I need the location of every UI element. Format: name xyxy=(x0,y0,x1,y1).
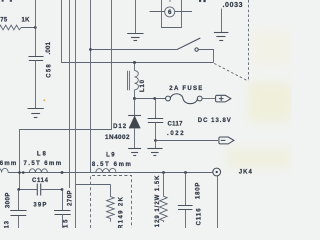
connector plus terminal xyxy=(216,95,231,102)
wire bus C x=75.5 xyxy=(75,0,77,228)
svg-text:L9: L9 xyxy=(106,153,115,159)
resistor R149 2K xyxy=(107,185,125,230)
transformer/pin box with circled 6 xyxy=(150,0,193,28)
node C114 right xyxy=(61,188,64,191)
switch S (arm and contact) xyxy=(177,38,214,63)
wire R149 feed from bus C xyxy=(76,184,111,186)
svg-text:8.5T 6mm: 8.5T 6mm xyxy=(92,162,131,168)
ground (top right, x=221.5) xyxy=(214,9,229,41)
node C116 tap xyxy=(184,171,187,174)
wire bus E x=111 corner to x=19.5 down to L8 wire xyxy=(20,0,112,173)
svg-text:R129 1/2W 1.5K: R129 1/2W 1.5K xyxy=(155,175,161,228)
wire stub marks top-left edge xyxy=(2,0,4,2)
node switch feed on bus D xyxy=(89,48,92,51)
wire bus D x=90.5 xyxy=(90,0,92,173)
svg-text:.022: .022 xyxy=(167,131,184,137)
svg-text:1K: 1K xyxy=(22,17,31,23)
svg-text:13: 13 xyxy=(4,220,10,228)
inductor L8 xyxy=(24,152,62,173)
node second dot xyxy=(22,171,25,174)
node minus-wire tap xyxy=(154,139,157,142)
resistor R129 1/2W 1.5K xyxy=(155,173,167,233)
wire x=19.5 down to C114 xyxy=(19,173,21,190)
inductor L10 xyxy=(128,63,146,99)
fuse F 2A xyxy=(166,86,216,104)
capacitor C115 270P xyxy=(54,190,73,229)
ground (C58) xyxy=(28,109,44,118)
mechanical linkage dashed vertical xyxy=(248,0,250,81)
inductor (far left, cut) xyxy=(0,168,8,172)
svg-text:15: 15 xyxy=(64,219,70,228)
svg-text:L8: L8 xyxy=(37,152,47,158)
svg-text:180P: 180P xyxy=(196,183,202,200)
capacitor C117 xyxy=(148,99,185,141)
svg-text:C117: C117 xyxy=(168,121,184,127)
capacitor C114 xyxy=(20,178,63,208)
wire switch top y=49.5 xyxy=(91,49,177,51)
svg-text:39P: 39P xyxy=(33,202,46,208)
node junction resistor/vertical xyxy=(34,26,37,29)
svg-text:C114: C114 xyxy=(32,178,49,184)
svg-text:1N4002: 1N4002 xyxy=(105,134,130,141)
mechanical linkage dashed diagonal xyxy=(214,63,248,81)
wire vertical x=35.5 top xyxy=(35,0,37,57)
svg-text:R149 2K: R149 2K xyxy=(119,196,125,228)
svg-text:.001: .001 xyxy=(46,41,52,54)
cut-off text ticks top xyxy=(199,0,201,2)
wire minus terminal xyxy=(156,140,219,142)
ground (top middle, x=135.5) xyxy=(127,0,143,41)
diode D12 1N4002 xyxy=(105,99,141,149)
svg-text:C58: C58 xyxy=(47,64,53,78)
node C117 tap xyxy=(153,97,156,100)
node L8 right junction xyxy=(61,171,64,174)
inductor L9 xyxy=(92,153,131,173)
jack JK4 xyxy=(213,168,253,228)
svg-text:L10: L10 xyxy=(140,79,146,92)
wire main output line y=172.5 xyxy=(8,172,213,174)
svg-text:2A FUSE: 2A FUSE xyxy=(169,86,202,92)
resistor R?75 xyxy=(0,17,36,30)
ground (D12) xyxy=(128,149,141,156)
wire bus B x=69.5 xyxy=(69,0,71,188)
svg-text:75: 75 xyxy=(0,17,8,23)
wire C117 to ground xyxy=(155,141,157,149)
capacitor C116 180P xyxy=(178,173,203,229)
dashed enclosure box xyxy=(91,176,132,229)
svg-text:6mm: 6mm xyxy=(0,161,16,167)
scan speckle xyxy=(43,99,45,101)
svg-text:7.5T 6mm: 7.5T 6mm xyxy=(24,161,62,167)
node C114 left xyxy=(17,188,20,191)
node L10 top on switch-return wire xyxy=(133,61,136,64)
ground (C117) xyxy=(147,149,162,156)
capacitor C58 xyxy=(29,41,53,108)
node D12/fuse tee xyxy=(133,97,136,100)
svg-text:.0033: .0033 xyxy=(223,2,243,9)
node bus E drop xyxy=(18,171,21,174)
svg-text:6: 6 xyxy=(168,9,172,16)
svg-text:C116: C116 xyxy=(196,208,202,226)
capacitor C113 300P xyxy=(4,190,26,229)
svg-text:DC 13.8V: DC 13.8V xyxy=(198,118,231,124)
svg-text:D12: D12 xyxy=(113,124,127,130)
wire bus A x=61.5 with corner to switch-return wire xyxy=(62,0,214,63)
connector minus terminal xyxy=(219,137,234,144)
svg-text:JK4: JK4 xyxy=(239,169,253,175)
wire fuse feed xyxy=(135,98,166,100)
node R129 tap xyxy=(162,171,165,174)
svg-text:300P: 300P xyxy=(6,193,12,209)
svg-text:270P: 270P xyxy=(67,190,73,206)
